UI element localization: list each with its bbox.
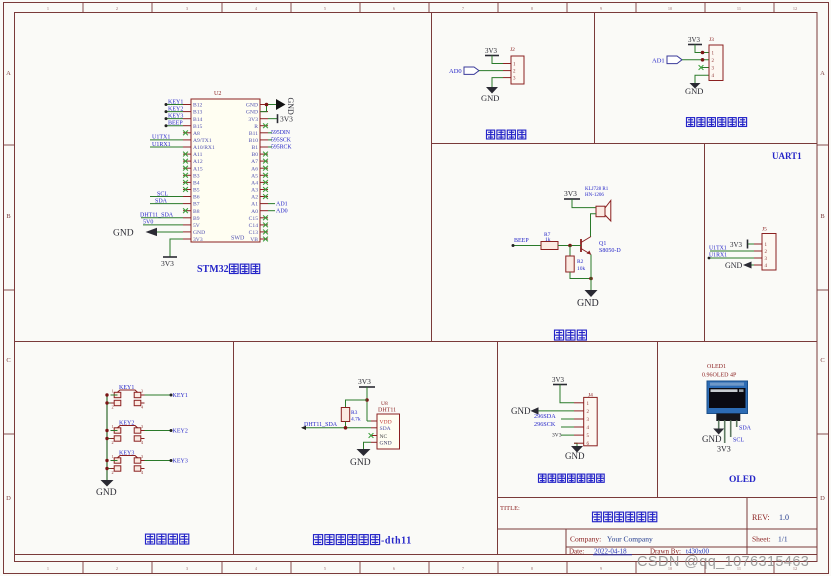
svg-text:GND: GND — [96, 488, 117, 498]
wire KEY1 pin2 to bus — [107, 402, 111, 404]
svg-text:5: 5 — [324, 566, 326, 571]
divider horizontal middle/bottom band — [14, 341, 817, 343]
svg-text:KEY1: KEY1 — [168, 99, 183, 105]
svg-text:A7: A7 — [251, 159, 258, 165]
port AD1 — [667, 56, 682, 64]
svg-text:C: C — [6, 357, 10, 364]
svg-text:B6: B6 — [193, 195, 200, 201]
wire net U1TX1 to U2 — [150, 139, 183, 141]
U2 right pins — [260, 104, 268, 106]
caption 风速传感 — [487, 130, 495, 139]
resistor R7 body — [541, 242, 558, 250]
junction bus KEY3 — [105, 459, 108, 462]
svg-text:GND: GND — [577, 298, 599, 309]
svg-text:296SCK: 296SCK — [534, 421, 556, 428]
svg-text:GND: GND — [511, 406, 531, 416]
power bar 3V3 UART1 — [747, 240, 749, 249]
ground power port left of U2 — [146, 228, 158, 236]
svg-text:A: A — [820, 70, 825, 77]
svg-text:A5: A5 — [251, 173, 258, 179]
caption 蜂鸣器 — [555, 330, 564, 340]
title block vertical company-cell left — [565, 529, 567, 555]
svg-text:AD0: AD0 — [449, 68, 462, 75]
connector J4 body — [584, 397, 598, 445]
wire BEEP to R7 — [513, 245, 541, 247]
title block top edge — [498, 497, 818, 499]
junction bus KEY1 pin2 — [105, 401, 108, 404]
wire net KEY3 to U2 — [166, 118, 183, 120]
U2 unconnected-pin X marks left — [183, 130, 188, 135]
svg-text:GND: GND — [246, 110, 258, 116]
node U1RX1 wire end — [708, 257, 711, 260]
svg-text:A10/RX1: A10/RX1 — [193, 145, 215, 151]
svg-text:296SDA: 296SDA — [534, 413, 556, 420]
svg-text:AD1: AD1 — [276, 202, 288, 208]
svg-text:8: 8 — [531, 6, 533, 11]
svg-text:R: R — [254, 124, 258, 130]
svg-text:3V3: 3V3 — [161, 259, 174, 268]
svg-text:OLED: OLED — [729, 475, 756, 485]
svg-text:A1: A1 — [251, 202, 258, 208]
wire J3 pin4 to GND — [695, 75, 709, 83]
svg-text:GND: GND — [481, 93, 499, 103]
svg-text:SCL: SCL — [733, 438, 744, 444]
svg-text:B13: B13 — [193, 110, 203, 116]
buzzer LS1 speaker symbol — [596, 206, 605, 217]
svg-text:1: 1 — [47, 6, 49, 11]
ground power port pressure left — [531, 407, 539, 414]
ground pressure block — [571, 446, 583, 453]
svg-text:R2: R2 — [577, 259, 584, 265]
OLED pin wires — [718, 420, 720, 428]
wire U1RX1 to J5 pin3 — [709, 257, 754, 259]
svg-text:C13: C13 — [249, 230, 259, 236]
power bar 3V3 buzzer — [564, 198, 580, 200]
ic U8 body — [377, 414, 400, 449]
svg-text:KEY3: KEY3 — [173, 459, 188, 465]
svg-text:8: 8 — [531, 566, 533, 571]
ground power port UART1 — [743, 262, 752, 269]
node KEY2 wire end — [165, 110, 168, 113]
divider vertical pressure/OLED — [657, 342, 659, 498]
ground buzzer block — [585, 290, 598, 297]
svg-text:2: 2 — [116, 566, 118, 571]
svg-text:TITLE:: TITLE: — [500, 505, 520, 512]
svg-text:GND: GND — [350, 458, 371, 468]
power bar 3V3 wind — [485, 55, 499, 57]
connector J3 body — [709, 45, 723, 81]
resistor R3 body — [341, 408, 349, 422]
wire 3V3 to J2 pin1 — [492, 56, 503, 64]
wire KEY2 output — [145, 430, 172, 432]
svg-text:2: 2 — [112, 405, 114, 410]
svg-text:1: 1 — [112, 454, 114, 459]
ground wind block — [486, 87, 498, 94]
svg-text:C15: C15 — [249, 216, 259, 222]
wire 3V3 to J4 pin1 — [560, 385, 574, 403]
svg-text:J5: J5 — [762, 227, 767, 233]
svg-text:AD1: AD1 — [652, 57, 665, 64]
caption 温湿度传感器-dth11 — [314, 535, 323, 545]
junction bus KEY2 — [105, 429, 108, 432]
svg-text:AD0: AD0 — [276, 209, 288, 215]
border tick marks top — [82, 3, 84, 13]
svg-text:B7: B7 — [193, 202, 200, 208]
wire KEY3 output — [145, 460, 172, 462]
power bar 3V3 below U2 — [163, 256, 177, 258]
svg-text:A: A — [6, 70, 11, 77]
transistor Q1 S8050 — [580, 239, 582, 252]
connector J2 body — [511, 56, 524, 84]
svg-text:1/1: 1/1 — [778, 535, 788, 544]
divider vertical wind/light — [594, 12, 596, 144]
divider vertical keyboard/DHT11 — [233, 341, 235, 555]
ground DHT11 block — [357, 449, 371, 456]
svg-text:REV:: REV: — [752, 513, 770, 522]
svg-text:595DIN: 595DIN — [271, 130, 291, 136]
ground OLED pin1 — [713, 429, 724, 435]
svg-text:U2: U2 — [214, 91, 221, 97]
svg-text:3V3: 3V3 — [280, 114, 293, 123]
wire net KEY1 to U2 — [166, 104, 183, 106]
title block row divider 2 — [566, 546, 817, 548]
svg-text:KEY3: KEY3 — [168, 113, 183, 119]
wire GND to U2 — [157, 231, 183, 233]
svg-text:SCL: SCL — [157, 191, 168, 197]
svg-text:3V3: 3V3 — [485, 47, 498, 55]
wire KEY3 pin2 to bus — [107, 468, 111, 470]
wire net BEEP to U2 — [166, 125, 183, 127]
wire KEY1 output — [145, 394, 172, 396]
title block row divider 1 — [498, 528, 818, 530]
svg-text:D: D — [6, 495, 11, 502]
svg-text:12: 12 — [793, 6, 797, 11]
no-connect X on NC pin — [369, 433, 374, 438]
wire net 5V0 to U2 — [143, 224, 183, 226]
svg-text:DHT11_SDA: DHT11_SDA — [140, 213, 174, 219]
svg-text:U1TX1: U1TX1 — [709, 246, 727, 252]
svg-text:1: 1 — [112, 424, 114, 429]
svg-text:2: 2 — [112, 440, 114, 445]
wire R2 bottom to emitter — [570, 272, 591, 279]
node KEY1 output end — [170, 394, 173, 397]
svg-text:B14: B14 — [193, 117, 203, 123]
junction U2 GND pins — [265, 103, 269, 107]
svg-text:STM32: STM32 — [197, 264, 229, 275]
svg-text:B1: B1 — [251, 145, 258, 151]
wire 3V3 to U8 VDD — [367, 420, 371, 422]
node BEEP wire end — [165, 124, 168, 127]
junction R3/SDA — [344, 426, 348, 430]
svg-text:1: 1 — [112, 389, 114, 394]
svg-text:3V3: 3V3 — [193, 237, 203, 243]
wire U2 3V3 right — [268, 118, 278, 120]
svg-text:3V3: 3V3 — [248, 117, 258, 123]
svg-text:GND: GND — [193, 230, 205, 236]
power bar 3V3 DHT11 — [359, 386, 375, 388]
svg-text:UART1: UART1 — [772, 151, 802, 161]
wire DHT11_SDA to U8 SDA — [302, 427, 371, 429]
svg-text:595SCK: 595SCK — [271, 137, 292, 143]
wire stub J3 pin3 — [701, 67, 709, 69]
junction 3V3/R3 — [365, 398, 369, 402]
svg-text:3: 3 — [141, 424, 143, 429]
svg-text:11: 11 — [737, 6, 741, 11]
svg-text:B5: B5 — [193, 188, 200, 194]
svg-text:BEEP: BEEP — [514, 238, 529, 244]
node KEY2 output end — [170, 429, 173, 432]
svg-text:R3: R3 — [351, 410, 358, 416]
power bar 3V3 right of U2 — [277, 114, 279, 123]
svg-text:3V3: 3V3 — [552, 433, 562, 439]
wire AD1 to J3 pin2 — [682, 59, 709, 61]
svg-text:SWD: SWD — [231, 236, 245, 242]
resistor R2 body — [566, 256, 574, 272]
wire KEY2 pin2 to bus — [107, 438, 111, 440]
node BEEP wire end — [512, 244, 515, 247]
wire net SCL to U2 — [150, 196, 183, 198]
wire U2 GND pin2 join — [260, 105, 267, 112]
junction bus KEY3 pin2 — [105, 467, 108, 470]
svg-text:Date:: Date: — [569, 548, 584, 556]
U2 unconnected-pin X marks right — [263, 123, 268, 128]
wire R7 to Q1 base — [558, 245, 581, 247]
svg-text:SDA: SDA — [155, 198, 168, 204]
wire GND to J5 pin4 — [752, 264, 755, 266]
svg-text:5V0: 5V0 — [143, 220, 153, 226]
J2 pin stubs — [503, 63, 511, 65]
svg-text:U8: U8 — [381, 401, 388, 407]
ic U2 STM32 core board body — [191, 99, 260, 242]
wire J4 pin6 to GND — [574, 443, 577, 446]
svg-text:A11: A11 — [193, 152, 203, 158]
wire Q1 emitter to GND — [590, 255, 592, 291]
svg-text:HN-1206: HN-1206 — [585, 193, 604, 198]
svg-text:B: B — [820, 213, 825, 220]
ground keyboard block — [101, 480, 114, 487]
svg-text:3: 3 — [186, 566, 188, 571]
svg-text:5: 5 — [324, 6, 326, 11]
svg-text:A4: A4 — [251, 181, 258, 187]
wire U8 GND down — [364, 442, 372, 449]
wire AD0 to J2 pin2 — [479, 70, 503, 72]
svg-text:A3: A3 — [251, 188, 258, 194]
wire KEY3 left to bus — [111, 460, 118, 462]
svg-text:3: 3 — [141, 454, 143, 459]
wire 3V3 to J5 pin1 — [748, 243, 754, 245]
power bar 3V3 light — [688, 44, 702, 46]
caption 光照强度传感 — [687, 118, 695, 127]
svg-text:U1RX1: U1RX1 — [152, 142, 171, 148]
svg-text:3: 3 — [141, 389, 143, 394]
border tick marks sides — [3, 144, 14, 146]
caption 键盘电路 — [146, 534, 155, 544]
power bar 3V3 pressure — [553, 384, 567, 386]
ground light block — [690, 83, 701, 89]
svg-text:-dth11: -dth11 — [381, 536, 412, 547]
wire U2 3V3 pin to 3V3 rail — [170, 239, 183, 257]
port AD0 — [464, 67, 479, 74]
node DHT11_SDA arrow end — [301, 426, 306, 430]
wire R3 bottom — [345, 422, 347, 428]
svg-text:GND: GND — [685, 86, 703, 96]
divider horizontal sensors/buzzer row — [432, 143, 818, 145]
svg-text:A6: A6 — [251, 166, 258, 172]
wire net AD1 — [268, 203, 275, 205]
wire keyboard common bus — [106, 395, 108, 480]
wire 296SDA to J4 pin3 — [561, 418, 574, 420]
svg-text:DHT11: DHT11 — [378, 408, 396, 414]
wire KEY1 left to bus — [111, 394, 118, 396]
svg-text:GND: GND — [246, 103, 258, 109]
node KEY1 wire end — [165, 103, 168, 106]
svg-text:5V: 5V — [193, 223, 200, 229]
divider vertical DHT11/pressure — [497, 341, 499, 555]
svg-text:DHT11_SDA: DHT11_SDA — [304, 422, 338, 428]
svg-text:GND: GND — [113, 228, 134, 238]
svg-text:3: 3 — [186, 6, 188, 11]
caption 大气压强传感器 — [539, 474, 547, 482]
svg-text:CSDN @qq_1076315463: CSDN @qq_1076315463 — [637, 554, 809, 570]
junction emitter/R2 — [589, 277, 593, 281]
svg-text:9: 9 — [600, 6, 602, 11]
svg-text:A12: A12 — [193, 159, 203, 165]
connector J5 body — [762, 234, 776, 271]
wire 3V3 to buzzer — [572, 199, 596, 208]
svg-text:3V3: 3V3 — [730, 241, 743, 249]
svg-text:3V3: 3V3 — [552, 376, 565, 384]
wire net 595SCK — [268, 139, 272, 141]
wire 3V3 down to VDD — [366, 387, 368, 421]
title text 气象监控系统 — [593, 512, 602, 522]
wire net 595DIN — [268, 132, 272, 134]
svg-text:2: 2 — [112, 470, 114, 475]
svg-text:B10: B10 — [249, 138, 259, 144]
svg-text:Your Company: Your Company — [607, 535, 653, 544]
svg-text:3V3: 3V3 — [564, 189, 577, 198]
svg-text:0.96OLED 4P: 0.96OLED 4P — [702, 373, 737, 379]
wire to R2 top — [569, 246, 571, 257]
svg-text:A8: A8 — [193, 131, 200, 137]
svg-text:A0: A0 — [251, 209, 258, 215]
svg-text:GND: GND — [565, 451, 585, 461]
svg-text:J2: J2 — [510, 47, 515, 53]
svg-text:J3: J3 — [709, 37, 714, 43]
svg-text:B11: B11 — [249, 131, 258, 137]
wire net DHT11_SDA to U2 — [141, 217, 183, 219]
svg-text:A2: A2 — [251, 195, 258, 201]
svg-text:GND: GND — [702, 434, 722, 444]
wire net AD0 — [268, 210, 275, 212]
svg-text:S8050-D: S8050-D — [599, 248, 621, 254]
junction bus KEY1 — [105, 393, 108, 396]
junction bus KEY2 pin2 — [105, 437, 108, 440]
wire 296SCK to J4 pin4 — [561, 426, 574, 428]
junction base/R2 — [568, 244, 572, 248]
svg-text:B: B — [6, 213, 11, 220]
svg-text:3V3: 3V3 — [358, 377, 371, 386]
svg-text:SDA: SDA — [739, 426, 752, 432]
svg-text:GND: GND — [725, 261, 743, 270]
wire 3V3 to J3 pin1 — [695, 45, 709, 53]
svg-text:GND: GND — [380, 441, 392, 447]
svg-text:2022-04-18: 2022-04-18 — [594, 548, 627, 556]
svg-text:595RCK: 595RCK — [271, 144, 292, 150]
junction J3 pin1 — [701, 51, 705, 55]
wire buzzer to Q1 collector — [591, 214, 597, 237]
junction J3 pin2 — [701, 58, 705, 62]
wire 3V3 to J4 pin5 — [561, 434, 574, 436]
svg-text:4.7k: 4.7k — [351, 417, 361, 423]
svg-text:B4: B4 — [193, 181, 200, 187]
svg-text:B9: B9 — [193, 216, 200, 222]
OLED module picture — [707, 381, 748, 414]
svg-text:Company:: Company: — [570, 535, 601, 544]
svg-text:1: 1 — [47, 566, 49, 571]
ground arrow right of U2 — [276, 99, 286, 110]
svg-text:B8: B8 — [193, 209, 200, 215]
svg-text:U1TX1: U1TX1 — [152, 135, 170, 141]
svg-text:SDA: SDA — [380, 426, 391, 432]
svg-text:1.0: 1.0 — [779, 513, 789, 522]
no-connect X J3 pin3 — [699, 65, 704, 70]
svg-text:B15: B15 — [193, 124, 203, 130]
svg-text:C: C — [820, 357, 824, 364]
wire branch to R3 top — [346, 400, 368, 408]
svg-text:VB: VB — [250, 237, 258, 243]
title block vertical rev column — [746, 498, 748, 555]
node KEY3 wire end — [165, 117, 168, 120]
svg-text:KLJ728 R1: KLJ728 R1 — [585, 187, 609, 192]
wire GND to J4 pin2 — [539, 410, 575, 412]
svg-text:B3: B3 — [193, 173, 200, 179]
svg-text:GND: GND — [286, 98, 295, 116]
wire J2 pin3 to GND — [492, 78, 503, 87]
wire net SDA to U2 — [150, 203, 183, 205]
svg-text:A9/TX1: A9/TX1 — [193, 138, 212, 144]
svg-text:KEY1: KEY1 — [173, 393, 188, 399]
wire net 595RCK — [268, 146, 272, 148]
divider bottom band lower edge — [14, 554, 817, 556]
svg-text:KEY2: KEY2 — [168, 106, 183, 112]
svg-text:B0: B0 — [251, 152, 258, 158]
svg-text:C14: C14 — [249, 223, 259, 229]
svg-text:D: D — [820, 495, 825, 502]
divider vertical STM32/right column — [431, 12, 433, 341]
svg-text:9: 9 — [600, 566, 602, 571]
wire net U1RX1 to U2 — [150, 146, 183, 148]
svg-text:OLED1: OLED1 — [707, 364, 726, 370]
wire net KEY2 to U2 — [166, 111, 183, 113]
svg-text:Sheet:: Sheet: — [752, 535, 771, 544]
border tick marks bottom — [82, 562, 84, 574]
svg-text:KEY2: KEY2 — [173, 429, 188, 435]
wire U1TX1 to J5 pin2 — [710, 250, 754, 252]
svg-text:3V3: 3V3 — [688, 36, 701, 44]
wire U2 GND pin1 to ground symbol — [268, 104, 276, 106]
node KEY3 output end — [170, 459, 173, 462]
svg-text:U1RX1: U1RX1 — [709, 253, 727, 259]
svg-text:BEEP: BEEP — [168, 121, 183, 127]
svg-text:Q1: Q1 — [599, 241, 606, 247]
svg-text:A15: A15 — [193, 166, 203, 172]
divider vertical buzzer/UART1 — [704, 144, 706, 342]
svg-text:10k: 10k — [577, 266, 586, 272]
wire KEY2 left to bus — [111, 430, 118, 432]
svg-text:10: 10 — [668, 6, 672, 11]
U2 left pins — [183, 104, 191, 106]
svg-text:2: 2 — [116, 6, 118, 11]
